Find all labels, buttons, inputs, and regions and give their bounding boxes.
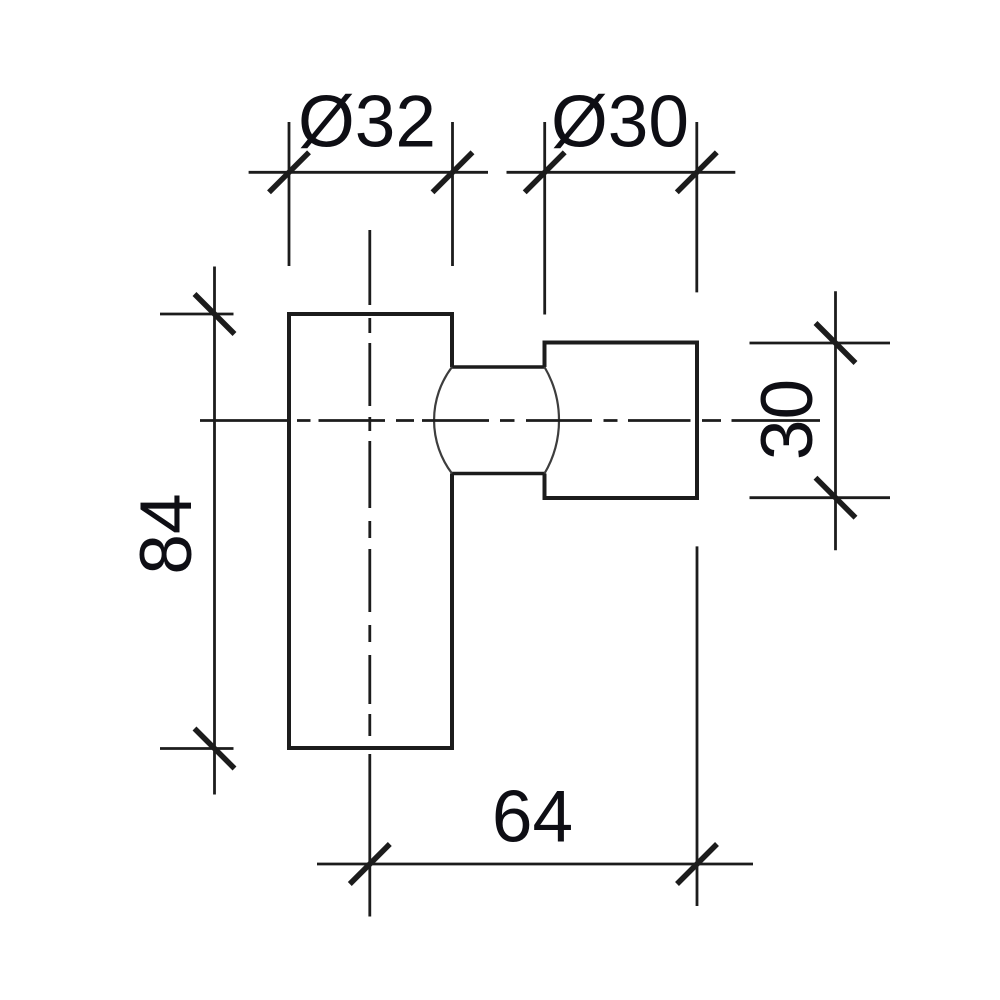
svg-text:Ø30: Ø30 — [551, 82, 689, 163]
right cylinder body outline (Ø30) — [545, 343, 698, 499]
svg-text:Ø32: Ø32 — [298, 82, 436, 163]
svg-text:30: 30 — [747, 379, 828, 460]
dimension Ø30: extension line right — [695, 122, 698, 292]
vertical centerline of left cylinder — [368, 230, 371, 736]
dimension Ø32: extension line left — [288, 122, 291, 266]
dimension 30: dimension line — [834, 291, 837, 550]
dimension 64: extension line right — [696, 546, 699, 906]
dimension 84: tick top — [195, 294, 235, 334]
neck top line — [452, 365, 545, 369]
dimension 30: extension line bottom — [750, 496, 891, 499]
dimension 84: extension line top — [160, 313, 234, 316]
dimension Ø32: tick right — [433, 152, 473, 192]
dimension 30: tick top — [816, 323, 856, 363]
dimension 84: tick bottom — [195, 729, 235, 769]
dimension Ø32: tick left — [269, 152, 309, 192]
dimension Ø30: dimension line — [507, 171, 736, 174]
ball joint right arc — [545, 367, 560, 474]
horizontal centerline of ball and right cylinder — [200, 419, 820, 422]
dimension 84: dimension line — [213, 267, 216, 795]
dimension Ø30: tick left — [525, 152, 565, 192]
dimension 64: dimension line — [317, 863, 753, 866]
neck bottom line — [452, 472, 545, 476]
dimension 30: tick bottom — [816, 478, 856, 518]
dimension 64: extension line left — [368, 754, 371, 917]
dimension Ø30: tick right — [677, 152, 717, 192]
left cylinder body outline (Ø32 x 84) — [289, 314, 452, 748]
dimension 30: extension line top — [750, 342, 891, 345]
dimension 84: extension line bottom — [160, 747, 234, 750]
dimension Ø32: extension line right — [451, 122, 454, 266]
svg-text:84: 84 — [126, 493, 207, 574]
dimension Ø30: extension line left — [543, 122, 546, 315]
dimension 64: tick right — [677, 844, 717, 884]
dimension Ø32: dimension line — [249, 171, 488, 174]
dimension 64: tick left — [350, 844, 390, 884]
ball joint left arc — [434, 367, 452, 474]
svg-text:64: 64 — [492, 777, 573, 858]
